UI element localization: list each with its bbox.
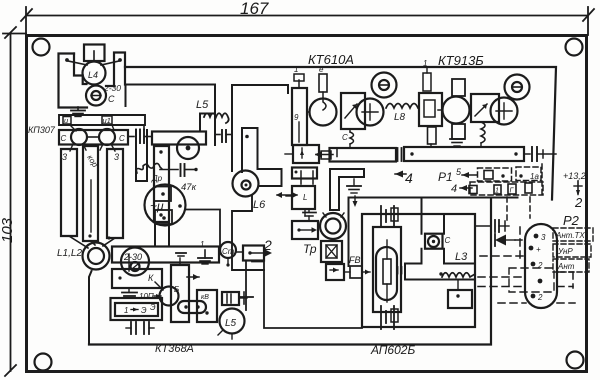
capacitor pad to T-bar <box>398 267 402 274</box>
AP602B transistor body <box>376 240 397 302</box>
svg-text:9: 9 <box>294 113 299 122</box>
transistor L4 crab left step <box>74 54 87 85</box>
coil L5 variometer <box>218 309 245 340</box>
coil L8 <box>386 104 418 124</box>
svg-text:КТ368А: КТ368А <box>155 343 194 355</box>
emitter pad KT913B bottom <box>452 124 465 139</box>
svg-text:1: 1 <box>495 188 499 195</box>
svg-text:C: C <box>119 134 125 143</box>
wire mu to bus <box>178 204 220 246</box>
svg-text:1: 1 <box>294 65 298 74</box>
trimmer top right with slot <box>505 75 530 100</box>
transistor L4 crab top pad <box>84 45 105 62</box>
capacitor e above KT610A <box>319 65 327 110</box>
P1 row1 pin boxes <box>484 171 539 182</box>
collector T-bar band <box>405 264 474 280</box>
svg-text:Р2: Р2 <box>563 213 580 228</box>
svg-text:КТ913Б: КТ913Б <box>438 53 484 68</box>
gate tab i1 <box>102 116 114 130</box>
ground KT913B <box>450 139 464 146</box>
supply +13,2 <box>563 171 586 194</box>
AP602B module outline <box>362 214 475 327</box>
wire pad2 left pin down <box>240 261 253 311</box>
coil L1,L2 <box>57 243 110 270</box>
dimension 167 top <box>21 0 594 35</box>
resistor drop from pad <box>342 129 354 147</box>
box K <box>112 254 162 288</box>
mixer box low <box>286 186 315 216</box>
right feed wire from module <box>475 225 490 227</box>
svg-text:C: C <box>61 134 67 143</box>
transistor on bar <box>177 137 199 159</box>
P1 row1 dashed harness <box>478 164 543 195</box>
svg-text:2-30: 2-30 <box>123 252 142 262</box>
svg-text:УнР: УнР <box>557 247 573 256</box>
trimmer over pad <box>357 99 384 126</box>
transistor mu <box>145 185 186 226</box>
L5 riser trace <box>200 114 215 132</box>
diode bridge box with X <box>321 241 342 262</box>
diode on right feed <box>495 234 515 246</box>
transistor L4 body <box>65 51 122 85</box>
choke vertical KT913B <box>481 122 485 147</box>
svg-text:Э: Э <box>141 306 147 315</box>
P2 tag Ant <box>553 259 589 272</box>
gamma trace to Tr <box>330 169 364 210</box>
wire bars to L1L2 coil <box>69 234 115 248</box>
svg-text:L5: L5 <box>225 318 237 329</box>
svg-text:L5: L5 <box>196 99 209 111</box>
ground under L4 <box>71 107 85 117</box>
svg-text:47к: 47к <box>181 182 197 193</box>
svg-text:и1: и1 <box>103 116 111 125</box>
interstage pad <box>419 59 442 126</box>
output 2 arrow <box>574 190 583 210</box>
P2 tag Ant TX <box>553 228 593 241</box>
dashed harness to P2 left <box>478 227 575 303</box>
mounting hole bottom-right <box>567 352 584 369</box>
vertical trace bar 1 <box>61 149 77 236</box>
trimmer over output pad <box>491 98 518 125</box>
svg-text:Р1: Р1 <box>438 170 453 184</box>
svg-text:кВ: кВ <box>201 294 209 301</box>
wire bus right segment <box>404 147 524 161</box>
pad under L3 <box>448 280 472 308</box>
ground near gamma <box>347 179 361 207</box>
svg-text:Тр: Тр <box>303 242 317 256</box>
KT610A stage input pad <box>292 65 307 145</box>
svg-text:+13,2: +13,2 <box>563 171 586 181</box>
resistor below interstage <box>428 127 437 147</box>
box kV <box>197 290 217 322</box>
connector P1 label <box>438 167 477 184</box>
svg-text:1: 1 <box>423 59 427 68</box>
trimmer 2-30 ellipse <box>121 248 149 276</box>
driver pad box <box>292 221 318 239</box>
choke Dr squiggle <box>136 163 178 183</box>
horizontal trace bar mid-left <box>152 132 206 145</box>
output 4 arrow P1 <box>451 183 472 195</box>
capacitor between KP307 and bar <box>128 125 152 143</box>
capacitor box right <box>222 292 247 305</box>
transistor KT610A body <box>307 99 337 126</box>
svg-text:3: 3 <box>62 152 67 162</box>
coil L6 <box>233 171 267 212</box>
transistor KT913B body <box>438 97 470 124</box>
svg-text:L8: L8 <box>394 112 406 123</box>
dimension 103 left <box>0 27 26 376</box>
arrow bar to kV <box>187 274 199 280</box>
svg-text:167: 167 <box>240 0 269 18</box>
svg-text:Э: Э <box>150 303 156 312</box>
capacitors top of AP602B <box>381 206 398 227</box>
pin 3 right <box>100 144 119 162</box>
transistor L4 crab left arm trace <box>59 54 88 108</box>
svg-text:С: С <box>342 133 348 142</box>
wire pad2 to AP602B <box>252 261 362 329</box>
capacitor below K <box>122 288 137 296</box>
vertical trace bar 3 <box>107 149 123 238</box>
coil L3 <box>442 251 475 277</box>
coil L5 <box>196 99 229 123</box>
svg-text:КП307: КП307 <box>28 125 56 135</box>
output pad KT913B <box>471 94 499 122</box>
svg-text:1: 1 <box>200 240 204 249</box>
resistor 10P <box>139 292 161 301</box>
svg-text:L6: L6 <box>253 199 266 211</box>
svg-text:Др: Др <box>151 174 163 183</box>
trimmer capacitor 2-30 under L4 <box>86 83 121 106</box>
trimmer St <box>219 242 243 267</box>
svg-text:4: 4 <box>405 170 413 186</box>
svg-text:2: 2 <box>263 237 272 253</box>
mixer box mid <box>292 168 317 185</box>
bottom horizontal bus bar <box>112 247 219 263</box>
stadium pad with pins <box>178 301 206 313</box>
capacitor right of L5 <box>215 130 232 142</box>
svg-text:Б: Б <box>174 285 179 294</box>
transistor KT368A body <box>150 282 179 312</box>
gamma trace outline top-left <box>126 85 216 146</box>
P2 tag UnR <box>553 244 591 257</box>
vertical pad bar center-right <box>154 146 169 222</box>
base pad KT913B top <box>452 79 465 96</box>
svg-text:3: 3 <box>541 233 546 242</box>
svg-text:103: 103 <box>0 217 16 243</box>
capacitor at bus right end <box>524 147 556 161</box>
AP602B inner pad <box>373 227 401 312</box>
connector P2 body <box>525 224 557 308</box>
svg-text:АП602Б: АП602Б <box>370 343 415 357</box>
capacitor above Tr <box>303 209 316 221</box>
wire L6 to lower bus <box>232 196 264 270</box>
svg-text:C: C <box>108 94 115 104</box>
ground right end of bus <box>198 240 212 264</box>
mixer box stack top <box>285 145 319 163</box>
mounting hole top-right <box>566 39 583 56</box>
P1 row2 pin boxes <box>469 183 532 195</box>
svg-text:1: 1 <box>124 306 128 315</box>
svg-text:L: L <box>303 193 307 202</box>
trimmer C box <box>425 234 451 249</box>
svg-text:10П: 10П <box>139 292 154 301</box>
svg-text:КТ610А: КТ610А <box>308 52 354 67</box>
mounting hole bottom-left <box>35 354 52 371</box>
svg-text:2: 2 <box>574 195 583 210</box>
dashed drop from P1 to P2 <box>507 197 530 222</box>
svg-text:L3: L3 <box>455 251 468 263</box>
vertical trace bar 2 kor <box>83 146 100 241</box>
transformer Tr <box>303 213 346 256</box>
transistor L4 crab right arm trace <box>106 53 125 87</box>
capacitors below emitter box <box>126 322 154 334</box>
gate rail <box>59 115 145 125</box>
pad below bridge <box>326 264 344 280</box>
P1 row2 dashed harness <box>470 182 543 195</box>
svg-text:С: С <box>445 236 451 245</box>
svg-text:L4: L4 <box>88 70 98 80</box>
capacitors bottom of AP602B <box>381 306 398 329</box>
svg-text:Ант: Ант <box>557 262 575 271</box>
svg-text:2-30: 2-30 <box>103 83 121 93</box>
svg-text:4: 4 <box>451 183 457 195</box>
svg-text:К: К <box>148 273 154 283</box>
output pad 2 <box>243 237 272 261</box>
KP307 dual transistor bus C-C <box>59 129 128 145</box>
mounting hole top-left <box>33 39 50 56</box>
pin 3 left <box>62 144 86 162</box>
L6 feed trace L-shape <box>242 128 282 186</box>
wire bus left segment <box>315 148 396 162</box>
trimmer top with slot <box>372 73 397 98</box>
svg-text:2: 2 <box>537 293 543 302</box>
svg-text:Ант.ТХ: Ант.ТХ <box>555 231 585 240</box>
wire L6 to mixer box <box>276 192 298 198</box>
vertical trace bar center <box>136 130 147 181</box>
svg-text:L1,L2: L1,L2 <box>57 248 82 259</box>
capacitor on right feed <box>495 220 509 232</box>
inner circuit boundary <box>89 67 556 345</box>
T trace below mu <box>155 222 169 246</box>
capacitor between bus bars <box>398 148 402 161</box>
collector trace vertical band <box>422 200 445 264</box>
emitter box lower-left <box>111 298 163 320</box>
small link pad <box>315 151 331 159</box>
capacitor 47k <box>181 164 198 193</box>
svg-text:+: + <box>536 245 541 254</box>
ground above tall bar <box>176 253 186 256</box>
matching pad KT610A collector <box>341 93 365 129</box>
output 4 arrow left chain <box>395 170 413 186</box>
svg-text:1а: 1а <box>530 172 539 181</box>
gate tab i <box>63 116 76 131</box>
tall pad bar right of KT368A <box>171 258 189 322</box>
svg-text:3: 3 <box>114 152 119 162</box>
fuse FB <box>344 255 370 278</box>
L6 feed trace vertical <box>232 85 288 171</box>
svg-text:FВ: FВ <box>349 255 361 265</box>
